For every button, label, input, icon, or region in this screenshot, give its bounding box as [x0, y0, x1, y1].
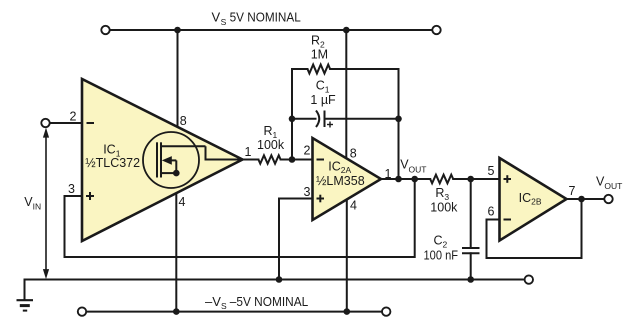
node Vout feedback junction	[395, 176, 402, 183]
IC2A plus input symbol	[317, 195, 325, 203]
junction Q1 source node	[173, 170, 180, 177]
svg-text:S: S	[221, 17, 227, 27]
wire IC2A pin 8 supply drop	[345, 30, 347, 159]
svg-text:3: 3	[304, 185, 311, 199]
wire feedback left vertical	[291, 69, 293, 160]
Vin source arrow	[43, 128, 49, 280]
node top rail IC2A junction	[343, 27, 350, 34]
svg-text:8: 8	[350, 147, 357, 161]
IC2A minus input symbol	[317, 159, 325, 161]
capacitor C1 plus mark	[327, 122, 333, 128]
wire IC1 pin 4 supply drop	[175, 173, 177, 312]
wire IC2A pin 3 to ground rail	[279, 199, 313, 280]
svg-text:6: 6	[488, 205, 495, 219]
resistor R1	[258, 155, 280, 163]
node IC2B output junction	[578, 196, 585, 203]
wire +Vs top rail	[110, 29, 433, 31]
node Vout loop junction	[411, 176, 418, 183]
svg-text:½LM358: ½LM358	[316, 174, 365, 188]
node R1 to IC2A input junction	[289, 156, 296, 163]
node C1 left junction	[289, 116, 296, 123]
transistor Q1 arrow	[162, 156, 172, 165]
IC1 plus input symbol	[86, 192, 94, 200]
wire C1 branch leads	[292, 118, 316, 120]
svg-text:8: 8	[180, 114, 187, 128]
svg-text:7: 7	[569, 184, 576, 198]
node C1 right junction	[395, 116, 402, 123]
capacitor C1 polarized	[316, 111, 325, 128]
svg-text:3: 3	[68, 182, 75, 196]
wire IC2A output to R3	[381, 178, 430, 180]
terminal Vin	[41, 119, 49, 127]
node -Vs rail IC2A pin4 junction	[344, 308, 351, 315]
svg-text:1 µF: 1 µF	[310, 93, 336, 107]
wire ground stem	[24, 280, 26, 301]
wire C2 branch vertical	[470, 179, 472, 248]
wire ground rail	[25, 279, 525, 281]
IC1 minus input symbol	[87, 122, 95, 124]
svg-text:100k: 100k	[257, 138, 285, 152]
svg-text:½TLC372: ½TLC372	[85, 156, 140, 170]
op-amp IC1 comparator triangle	[82, 79, 243, 241]
transistor Q1 MOSFET body	[157, 142, 242, 177]
node R3 C2 junction	[467, 176, 474, 183]
svg-text:100k: 100k	[430, 200, 458, 214]
svg-text:5: 5	[488, 164, 495, 178]
svg-text:1M: 1M	[311, 48, 328, 62]
svg-text:100 nF: 100 nF	[424, 248, 459, 262]
IC2B minus input symbol	[504, 219, 512, 221]
svg-text:4: 4	[350, 199, 357, 213]
wire R2 branch leads	[292, 68, 308, 70]
svg-text:5V NOMINAL: 5V NOMINAL	[230, 10, 301, 25]
resistor R3	[430, 175, 453, 184]
svg-text:V: V	[212, 10, 221, 25]
terminal ground rail right	[525, 275, 533, 283]
node ground rail C2 junction	[467, 276, 474, 283]
svg-text:–V: –V	[205, 294, 221, 309]
wire IC2B output	[567, 198, 605, 200]
op-amp IC2B triangle	[500, 158, 567, 241]
wire feedback right vertical	[398, 69, 400, 179]
terminal -Vs left	[78, 307, 86, 315]
wire IC1 pin 2 input	[50, 122, 82, 124]
wire IC1 pin 8 supply drop	[177, 30, 179, 128]
wire IC2B pin 6 feedback loop	[487, 199, 582, 258]
node -Vs rail IC1 pin4 junction	[173, 308, 180, 315]
svg-text:4: 4	[179, 195, 186, 209]
wire R3 to IC2B pin 5	[453, 178, 499, 180]
node top rail IC1 junction	[174, 27, 181, 34]
node ground rail IC2A pin3 junction	[276, 276, 283, 283]
wire IC2A pin 4 supply drop	[346, 199, 348, 312]
svg-text:–5V NOMINAL: –5V NOMINAL	[230, 294, 308, 309]
wire IC1 output to R1 to IC2A pin 2	[242, 159, 258, 161]
terminal -Vs right	[382, 307, 390, 315]
wire -Vs bottom rail	[86, 311, 382, 313]
wire IC1 pin 3 feedback run	[65, 179, 415, 257]
IC2B plus input symbol	[504, 175, 512, 183]
svg-text:S: S	[221, 301, 227, 311]
ground symbol	[17, 300, 34, 310]
capacitor C2	[462, 248, 480, 253]
svg-text:1: 1	[245, 145, 252, 159]
terminal +Vs left	[101, 26, 109, 34]
svg-text:2: 2	[70, 110, 77, 124]
terminal Vout	[604, 195, 612, 203]
terminal +Vs right	[432, 26, 440, 34]
op-amp IC2A triangle	[313, 138, 382, 220]
svg-text:1: 1	[385, 167, 392, 181]
transistor Q1 output MOSFET circle	[143, 132, 199, 188]
resistor R2	[308, 65, 331, 74]
svg-text:2: 2	[304, 144, 311, 158]
